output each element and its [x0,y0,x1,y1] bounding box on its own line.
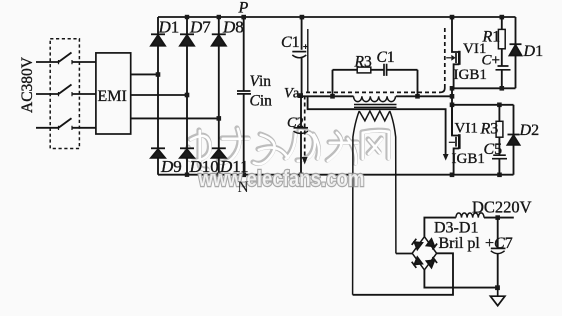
svg-text:C1: C1 [377,49,395,66]
wire: stray vertical beside C1 [307,29,309,92]
capacitor Cin (DC bus) column [243,17,245,175]
wire: phase column 1 [157,17,159,175]
capacitor C1 polarity plus [303,44,308,49]
node: primary right / midpoint taps [450,94,455,99]
diode D1 (freewheel top) [510,44,522,55]
wire: bridge bottom to ground node [424,270,497,288]
svg-text:www.elecfans.com: www.elecfans.com [198,166,365,191]
IGBT VT1 gate bar [455,53,457,63]
svg-text:N: N [238,179,249,196]
wire: primary right to half-bridge midpoint [396,95,452,97]
diode D2 [508,135,520,145]
wire: EMI output b to column 2 [131,94,187,96]
dashed gate lead down from Va with arrow [304,96,306,157]
node: lower module top tap [497,103,502,108]
wire: N bus (bottom rail) [158,174,514,176]
svg-text:D3-D1: D3-D1 [434,220,478,237]
wire: phase column 2 [186,17,188,175]
svg-text:D1: D1 [523,43,544,60]
IGBT VT2 gate bar [455,137,457,147]
wire: output bridge top feed [424,218,456,237]
node: ground junction [495,285,500,290]
svg-text:C5: C5 [484,141,503,158]
wire: secondary right to bridge left corner [396,253,412,255]
svg-text:C+: C+ [482,53,500,69]
capacitor Cin plates [237,91,251,94]
snubber branch: resistor R3 + capacitor C1 in series [333,70,418,97]
capacitor C7 plates (polarized) [491,247,506,249]
transformer T1 core [354,105,397,108]
wire: phase line 3 with breaker S3 [36,118,96,130]
svg-text:D8: D8 [222,18,244,37]
node: EMI stub taps [156,72,161,77]
node: top rail taps [185,15,189,19]
svg-text:Bril pl: Bril pl [439,235,481,252]
wire: top module bottom rail [452,87,516,89]
svg-text:Va: Va [284,86,300,102]
wire: half-bridge midpoint column [451,88,453,135]
resistor R3 (lower module) body [496,121,503,137]
diode D11 [212,148,226,158]
diode D1 (freewheel top) string [515,17,517,88]
IGBT VT2 emitter lead [454,148,460,174]
IGBT VT1 (top) collector feed [452,17,459,52]
node: N rail taps [185,173,189,177]
svg-text:R3: R3 [480,121,499,138]
node: C7 top tap [495,215,500,220]
capacitor C (top module) plates [496,66,511,70]
wire: secondary left leg down [353,111,360,295]
IGBT VT2 (bottom) collector feed [452,105,459,136]
bridge diode bottom-left [412,257,423,268]
node: snubber right tap [415,94,420,99]
capacitor C1 (upper bus cap) column [301,17,303,96]
svg-text:AC380V: AC380V [19,56,36,113]
wire: P bus (top rail) [158,16,516,18]
resistor R1 body [498,29,505,48]
node: snubber left tap [330,94,335,99]
capacitor C2 plates [294,127,309,129]
resistor R3 (lower module) string [498,105,500,175]
capacitor C1 plates (polarized) [292,51,306,53]
diode D9 [151,148,165,158]
svg-text:D9: D9 [160,157,182,176]
watermark: elecfans chinese calligraphy row [186,128,389,170]
IGBT VT2 channel bar [458,134,461,149]
bridge diode bottom-right [427,257,438,268]
capacitor C7 string [497,218,499,288]
bridge diode top-right [427,239,438,250]
svg-text:D1: D1 [158,18,180,37]
wire: EMI output c to column 3 [131,117,219,119]
wire: bridge right corner loop to secondary left [353,253,453,294]
bridge diode top-left [412,239,423,250]
svg-text:P: P [238,0,249,17]
node: top module bottom taps [500,86,505,91]
svg-text:C1: C1 [281,34,300,51]
IGBT VT1 channel bar [458,51,461,65]
wire: Va to transformer primary left [301,95,354,97]
diode D2 string [513,105,515,175]
capacitor C5 plates [492,155,507,159]
node Va junction [298,93,303,98]
rectifier bridge D3-D1 diamond [412,237,436,270]
resistor R1 string [501,17,503,88]
dashed gate bus: Va to upper IGBT [306,25,445,92]
svg-text:DC220V: DC220V [472,198,532,217]
IGBT VT1 gate lead + arrow [446,57,451,59]
wire: EMI output a to column 1 [131,73,158,75]
diode D10 [180,148,194,158]
resistor R3 body [357,67,371,73]
svg-text:+C7: +C7 [485,235,513,252]
wire: phase line 1 with breaker S1 [36,53,96,65]
lower gate arrow [443,154,449,161]
inductor L (output) [456,213,484,218]
IGBT VT2 gate lead [449,141,455,143]
svg-text:Vin: Vin [250,73,272,90]
svg-text:C2: C2 [287,115,304,131]
svg-text:R1: R1 [482,29,501,46]
IGBT VT1 emitter lead [454,64,460,88]
wire: phase column 3 [218,17,220,175]
wire: phase line 2 with breaker S2 [36,85,96,97]
transformer T1 primary winding [354,96,396,101]
wire: lower module top rail [452,104,514,106]
svg-text:IGB1: IGB1 [452,151,485,167]
ground symbol [490,288,505,306]
svg-text:R3: R3 [354,54,372,71]
svg-text:VI1: VI1 [455,121,478,137]
svg-text:D7: D7 [189,18,211,37]
svg-text:IGB1: IGB1 [454,67,487,83]
diode D1 [151,34,165,45]
EMI filter block U-EMI [96,53,131,134]
wire: DC220V output lead [484,217,514,219]
wire: midpoint link under core to lower gate [308,96,446,154]
svg-text:D2: D2 [519,122,540,139]
svg-text:Cin: Cin [250,93,273,110]
capacitor C2 (lower bus cap) column [300,96,302,175]
diode D7 [180,34,194,45]
transformer T1 secondary winding [359,111,390,121]
wire: secondary right leg down [390,111,396,254]
three-phase switch dashed enclosure [50,39,79,149]
svg-text:EMI: EMI [98,88,127,105]
diode D8 [212,34,226,45]
capacitor C1 (snubber) plates [384,64,387,76]
